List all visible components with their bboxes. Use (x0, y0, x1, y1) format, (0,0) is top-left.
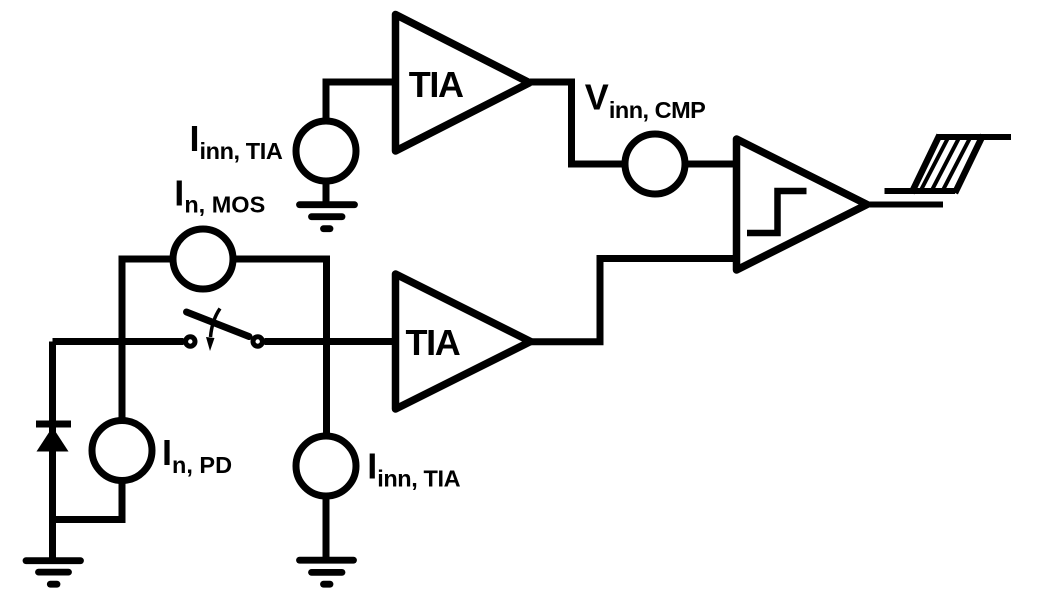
svg-text:TIA: TIA (409, 64, 464, 105)
signal symbol: thin diagonal 3 (943, 137, 971, 190)
svg-text:Iinn, TIA: Iinn, TIA (190, 118, 283, 164)
wire: comparator output (867, 202, 943, 208)
svg-text:Iinn, TIA: Iinn, TIA (367, 446, 460, 492)
switch blade (187, 312, 250, 337)
wire: I_n,PD bottom to diode branch (53, 481, 123, 520)
wire: top TIA output to source circle (530, 82, 625, 164)
wire: I_n,MOS loop left side (122, 259, 173, 421)
signal symbol: thin diagonal 1 (921, 137, 949, 190)
svg-text:Vinn, CMP: Vinn, CMP (585, 77, 706, 124)
svg-text:In, MOS: In, MOS (174, 173, 265, 218)
wire: top TIA input with corner (326, 82, 396, 121)
current source I_n,PD (92, 421, 152, 481)
wire: I_n,MOS loop right side (233, 259, 327, 436)
wire: source circle to comparator (685, 161, 737, 168)
wire: photodiode branch vertical (49, 342, 56, 560)
ground (bottom middle) (300, 560, 354, 584)
op-amp U2: middle TIA triangle (396, 274, 531, 409)
svg-text:TIA: TIA (406, 322, 461, 363)
ground (bottom left) (26, 561, 81, 585)
switch contact right (253, 337, 262, 346)
current source I_inn,TIA (bottom) (296, 436, 356, 496)
hysteresis symbol (747, 191, 807, 233)
source V_inn,CMP circle (625, 134, 685, 194)
wire: main horizontal right segment (265, 338, 397, 345)
switch actuation arrow (211, 309, 221, 338)
current source I_inn,TIA (top) (296, 121, 356, 181)
signal symbol: thin diagonal 2 (932, 137, 960, 190)
wire: middle TIA output to comparator lower input (531, 259, 737, 342)
photodiode D1 cathode bar (36, 421, 71, 428)
svg-text:In, PD: In, PD (162, 432, 232, 478)
wire: bottom source to ground (323, 496, 330, 558)
signal symbol: upper line (938, 134, 1012, 140)
ground (top middle) (300, 205, 355, 229)
current source I_n,MOS (173, 229, 233, 289)
signal symbol: lower line (885, 188, 956, 194)
op-amp U1: top TIA triangle (396, 15, 530, 152)
wire: main horizontal left segment (53, 338, 184, 345)
photodiode D1 anode triangle (37, 427, 69, 452)
switch contact left (186, 337, 195, 346)
signal symbol: left thick diagonal (912, 135, 940, 193)
signal symbol: right thick diagonal (955, 135, 983, 193)
comparator U3 triangle (737, 139, 868, 270)
wire: top source to ground (323, 181, 330, 202)
